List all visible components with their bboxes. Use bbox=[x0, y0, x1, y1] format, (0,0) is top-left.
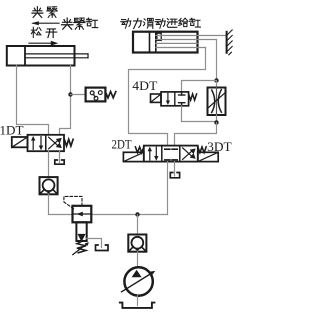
pilot line (dashed) of reducing valve bbox=[64, 196, 82, 209]
pressure switch (压力继电器) bbox=[86, 88, 106, 102]
pressure reducing valve lower section bbox=[76, 222, 86, 242]
junction node clamp line bbox=[68, 92, 72, 96]
fixed wall (machine slide anchor) bbox=[227, 30, 233, 55]
pressure switch spring bbox=[105, 92, 115, 98]
wire throttle bottom to lower junction bbox=[216, 115, 218, 123]
valve solenoid 3DT bbox=[198, 152, 218, 161]
check valve CV2 (pump outlet) bbox=[128, 235, 146, 252]
feed cylinder body bbox=[133, 32, 198, 53]
junction node above throttle bbox=[214, 78, 218, 82]
wire pump suction to tank bbox=[137, 296, 139, 306]
valve solenoid 2DT bbox=[123, 152, 143, 161]
pressure reducing valve body bbox=[73, 206, 92, 223]
tank symbol under 1DT bbox=[55, 160, 64, 164]
wire feed cylinder port to valve port A (long route) bbox=[129, 48, 206, 146]
wire 1DT T port to tank bbox=[59, 151, 61, 162]
valve 1DT left position arrows bbox=[31, 136, 43, 150]
wire clamp rod-end to 1DT port B bbox=[60, 66, 71, 136]
tank symbol reducing valve drain bbox=[96, 245, 109, 251]
wire junction to throttle top bbox=[216, 81, 218, 88]
valve 1DT return spring bbox=[64, 139, 73, 146]
valve 4DT spring bbox=[189, 94, 197, 100]
valve centring spring left bbox=[135, 147, 143, 153]
valve centre position blocked ports bbox=[165, 149, 177, 160]
wire 4DT bottom to lower junction bbox=[182, 106, 217, 122]
label 夹紧缸 (clamp cylinder) bbox=[61, 18, 97, 29]
tank symbol under 2DT/3DT valve bbox=[170, 173, 179, 178]
wire CV2 to pump bbox=[137, 252, 139, 268]
clamp direction arrow (left) bbox=[31, 21, 59, 25]
valve 2DT/3DT body bbox=[144, 146, 198, 162]
release direction arrow (right) bbox=[29, 41, 58, 46]
throttle valve bbox=[207, 88, 226, 116]
check valve CV1 (clamp branch) bbox=[40, 177, 58, 194]
label 松开 (release) bbox=[31, 27, 56, 37]
label 夹紧 (clamp) bbox=[32, 7, 57, 18]
wire valve P port to main line bbox=[167, 162, 169, 215]
clamp cylinder piston rod bbox=[25, 54, 88, 58]
wire junction to 4DT valve top bbox=[182, 81, 217, 93]
wire CV1 to main pressure line bbox=[49, 194, 73, 214]
junction node main line bbox=[135, 212, 139, 216]
wire clamp cap-end to 1DT port A bbox=[17, 66, 49, 136]
main tank symbol bbox=[120, 303, 155, 308]
label 动力滑动进给缸 (power slide feed cylinder) bbox=[121, 18, 201, 28]
wire 1DT P port to check valve bbox=[48, 151, 50, 177]
wire lower junction to valve port B bbox=[175, 123, 217, 146]
valve 4DT solenoid bbox=[151, 94, 162, 102]
valve left position arrows bbox=[148, 147, 159, 161]
svg-text:1DT: 1DT bbox=[0, 123, 24, 137]
valve 1DT right position crossed arrows bbox=[49, 137, 62, 149]
wire main line junction down to check valve CV2 bbox=[137, 215, 139, 235]
valve 4DT flow arrow bbox=[166, 93, 170, 105]
clamp cylinder body bbox=[7, 46, 75, 66]
valve right position crossed arrows bbox=[183, 148, 196, 160]
wire rod passage to top junction bbox=[216, 40, 218, 81]
valve centring spring right bbox=[198, 147, 206, 153]
wire junction to pressure switch bbox=[71, 94, 86, 96]
junction node below throttle bbox=[214, 120, 218, 124]
main pressure line bbox=[91, 214, 167, 216]
pressure reducing valve adjustable spring bbox=[73, 242, 89, 255]
variable displacement pump bbox=[122, 267, 156, 295]
svg-text:2DT: 2DT bbox=[112, 137, 132, 151]
valve 4DT body bbox=[161, 92, 189, 106]
valve 1DT solenoid bbox=[12, 137, 28, 147]
feed cylinder rod and internal passages bbox=[156, 36, 227, 48]
drain line of reducing valve bbox=[87, 239, 102, 248]
valve 4DT blocked position bbox=[179, 92, 185, 106]
valve 1DT body bbox=[28, 135, 65, 151]
wire valve T port to tank bbox=[174, 162, 176, 176]
svg-text:4DT: 4DT bbox=[132, 79, 157, 93]
